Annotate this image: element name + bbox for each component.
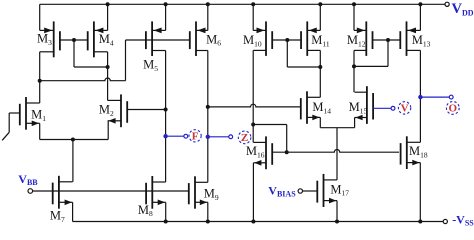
svg-text:VDD: VDD [452, 1, 474, 17]
svg-text:M1: M1 [31, 108, 46, 123]
svg-text:M6: M6 [206, 32, 221, 47]
svg-text:M9: M9 [204, 186, 219, 201]
svg-text:M12: M12 [347, 33, 366, 48]
svg-text:O: O [449, 103, 458, 115]
svg-text:Z: Z [241, 132, 248, 144]
svg-text:M11: M11 [311, 33, 330, 48]
svg-text:VBB: VBB [18, 172, 38, 187]
svg-text:M2: M2 [99, 103, 114, 118]
svg-text:M4: M4 [99, 32, 114, 47]
svg-text:-VSS: -VSS [452, 213, 474, 228]
svg-text:M7: M7 [50, 209, 65, 224]
svg-text:M5: M5 [143, 57, 158, 72]
svg-text:M3: M3 [37, 32, 52, 47]
svg-text:M14: M14 [312, 100, 331, 115]
svg-text:M8: M8 [138, 203, 153, 218]
svg-text:M13: M13 [412, 33, 431, 48]
svg-text:VBIAS: VBIAS [268, 183, 296, 198]
svg-text:M15: M15 [349, 100, 368, 115]
svg-text:M16: M16 [246, 144, 265, 159]
svg-text:M18: M18 [409, 144, 428, 159]
svg-text:V: V [401, 103, 409, 115]
svg-text:M17: M17 [330, 182, 349, 197]
svg-text:F: F [192, 130, 199, 142]
svg-text:M10: M10 [243, 33, 262, 48]
